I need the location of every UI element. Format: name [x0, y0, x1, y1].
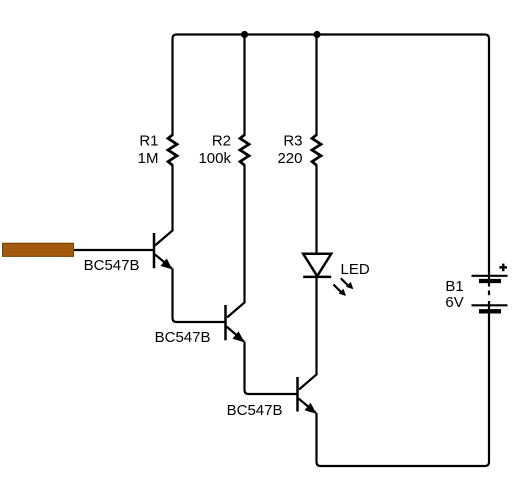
- svg-text:R3: R3: [283, 133, 302, 150]
- svg-text:LED: LED: [341, 261, 370, 278]
- svg-text:220: 220: [277, 150, 302, 167]
- svg-text:BC547B: BC547B: [84, 257, 140, 274]
- svg-text:6V: 6V: [445, 294, 463, 311]
- svg-text:R1: R1: [139, 133, 158, 150]
- svg-text:1M: 1M: [138, 150, 159, 167]
- svg-text:BC547B: BC547B: [155, 329, 211, 346]
- svg-text:100k: 100k: [198, 150, 231, 167]
- svg-text:B1: B1: [445, 278, 463, 295]
- svg-text:BC547B: BC547B: [227, 402, 283, 419]
- svg-text:R2: R2: [212, 133, 231, 150]
